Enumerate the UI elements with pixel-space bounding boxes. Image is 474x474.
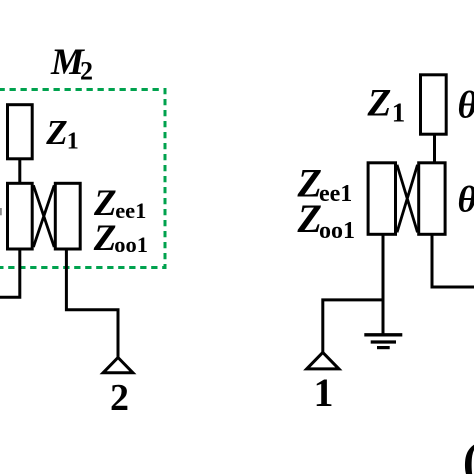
svg-text:(: ( (463, 432, 474, 474)
stub Z1 (left circuit) (8, 105, 33, 159)
wire down-left from coupled line (left circuit) (0, 249, 20, 297)
coupled line right conductor (right circuit) (419, 163, 445, 235)
svg-text:2: 2 (80, 57, 93, 86)
coupled line left conductor (left circuit) (8, 183, 33, 249)
wire stub at left edge (0, 208, 2, 215)
coupled line left conductor (right circuit) (368, 163, 395, 235)
wire to port 1 (323, 300, 383, 353)
stub Z1 (right circuit) (421, 75, 447, 134)
svg-text:Z: Z (93, 218, 117, 259)
svg-text:θ: θ (458, 179, 474, 220)
svg-text:ee1: ee1 (115, 198, 146, 223)
ground symbol (364, 335, 402, 348)
coupled line right conductor (left circuit) (55, 183, 80, 249)
port 2 triangle (103, 358, 133, 373)
wire Z1 to coupled line (left) (18, 159, 21, 184)
wire to port 2 (66, 249, 118, 358)
wire left conductor to ground (right circuit) (382, 234, 385, 334)
svg-text:ee1: ee1 (319, 181, 352, 207)
svg-text:Z: Z (367, 82, 392, 125)
svg-text:1: 1 (392, 97, 406, 127)
wire Z1 to coupled line (right circuit) (433, 134, 436, 163)
svg-text:oo1: oo1 (114, 232, 148, 257)
svg-text:Z: Z (45, 113, 67, 152)
svg-text:2: 2 (110, 377, 129, 419)
svg-text:oo1: oo1 (319, 218, 355, 244)
port 1 triangle (307, 352, 339, 369)
coupled line cross (right circuit) (397, 165, 418, 233)
svg-text:1: 1 (314, 370, 334, 415)
coupled line cross (left circuit) (33, 185, 54, 247)
svg-text:1: 1 (67, 129, 79, 155)
svg-text:θ: θ (458, 85, 474, 127)
wire exiting right (right circuit) (432, 234, 474, 287)
dashed box M2 (0, 90, 165, 268)
